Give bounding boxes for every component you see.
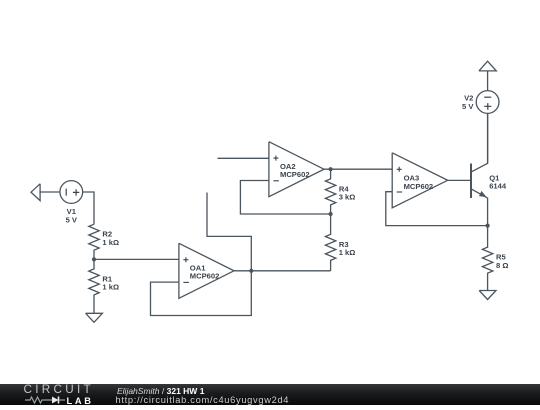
wire OA1 minus feedback loop	[151, 271, 252, 316]
ground under R1	[86, 313, 103, 322]
op-amp OA1	[179, 243, 234, 298]
wire OA3 minus feedback	[386, 192, 488, 226]
OA2 minus pin mark	[273, 180, 279, 182]
wire V1 to R2	[83, 192, 94, 224]
svg-text:1 kΩ: 1 kΩ	[339, 248, 356, 257]
wire V2 to Q1 collector	[487, 113, 489, 163]
OA1 plus pin mark	[183, 257, 188, 262]
wire OA3 output to Q1 base	[448, 179, 471, 181]
transistor Q1 base bar	[470, 164, 472, 199]
footer bar	[0, 384, 540, 405]
OA1 minus pin mark	[183, 281, 189, 283]
Q1 emitter arrowhead	[480, 192, 486, 197]
svg-text:5 V: 5 V	[66, 216, 78, 225]
svg-text:5 V: 5 V	[462, 102, 474, 111]
wire flag to V1	[40, 191, 60, 193]
url	[116, 395, 290, 405]
svg-text:MCP602: MCP602	[280, 170, 310, 179]
wire stub from OA1 output node up	[207, 193, 251, 271]
wire OA1 output	[234, 270, 331, 272]
op-amp OA3	[392, 153, 448, 208]
svg-text:8 Ω: 8 Ω	[496, 261, 508, 270]
svg-text:MCP602: MCP602	[190, 271, 220, 280]
wire OA2 minus feedback	[240, 181, 330, 215]
Q1 emitter lead with arrow	[471, 189, 488, 226]
junction R4 top	[329, 167, 333, 171]
voltage source V2	[476, 91, 499, 114]
junction at OA1 output	[249, 269, 253, 273]
wire node to OA1 + input	[94, 258, 179, 260]
OA3 plus pin mark	[397, 167, 402, 172]
resistor R1	[89, 259, 99, 313]
resistor R3	[325, 214, 335, 271]
wire flag to V2	[487, 71, 489, 91]
OA2 plus pin mark	[273, 156, 278, 161]
junction emitter node	[486, 224, 490, 228]
svg-text:MCP602: MCP602	[404, 182, 434, 191]
node junction R2/R1	[92, 257, 96, 261]
CircuitLab logo text	[24, 383, 95, 396]
voltage source V1	[60, 181, 83, 204]
svg-text:1 kΩ: 1 kΩ	[102, 283, 119, 292]
ground under R5	[479, 291, 496, 300]
power flag above V2	[479, 61, 496, 71]
wire stub to OA2 + input	[218, 157, 269, 159]
resistor R4	[325, 169, 335, 214]
svg-text:3 kΩ: 3 kΩ	[339, 193, 356, 202]
resistor R2	[89, 224, 99, 259]
author / title	[117, 386, 204, 396]
wire OA2 output to OA3	[324, 168, 392, 170]
Q1 collector lead	[471, 113, 488, 172]
OA3 minus pin mark	[397, 191, 403, 193]
logo squiggle: resistor + diode	[24, 395, 94, 405]
ground flag at V1 minus	[31, 184, 40, 201]
junction R4/R3	[329, 212, 333, 216]
svg-text:1 kΩ: 1 kΩ	[102, 238, 119, 247]
resistor R5	[482, 226, 492, 291]
op-amp OA2	[269, 142, 324, 197]
svg-text:6144: 6144	[489, 182, 507, 191]
